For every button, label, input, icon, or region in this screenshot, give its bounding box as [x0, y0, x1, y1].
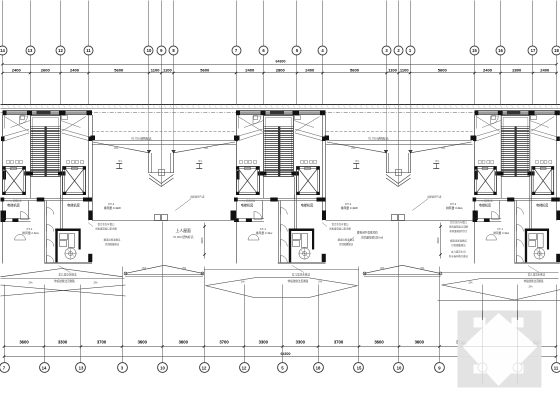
svg-text:3300: 3300	[58, 340, 68, 345]
svg-text:铝合金百叶窗口: 铝合金百叶窗口	[450, 220, 467, 224]
svg-text:防水卷材收头做法: 防水卷材收头做法	[449, 254, 469, 258]
svg-text:排风量 3.4kw: 排风量 3.4kw	[446, 206, 463, 210]
lower roof: peak under unit 1	[1, 269, 62, 277]
top axis circles	[0, 46, 7, 55]
svg-text:铝合金百叶窗口: 铝合金百叶窗口	[332, 222, 349, 226]
funnel 2 exhaust leader	[412, 199, 428, 211]
roof fascia line lower	[1, 108, 560, 110]
svg-text:伸缩缝做法见图集: 伸缩缝做法见图集	[54, 279, 75, 283]
raised walkway ridge 1	[125, 265, 164, 273]
svg-text:风机盘管接口见详图: 风机盘管接口见详图	[95, 227, 117, 231]
funnel 2 dashed axis line	[326, 131, 473, 133]
funnel 2 channel walls	[386, 152, 388, 173]
svg-text:详见图集做法: 详见图集做法	[105, 242, 120, 246]
svg-text:排风量 2.4kw: 排风量 2.4kw	[256, 231, 273, 235]
svg-text:烟道出屋面做法: 烟道出屋面做法	[450, 239, 467, 243]
svg-text:70.750 结构标高: 70.750 结构标高	[368, 136, 389, 140]
funnel 2 roof floor line	[326, 220, 473, 222]
unit 1 room bottom wall	[44, 262, 92, 264]
unit 1 half-disc door leaf	[15, 235, 26, 241]
unit 2 left wall	[236, 115, 238, 167]
svg-text:3600: 3600	[532, 342, 539, 346]
svg-text:2%: 2%	[318, 280, 323, 284]
unit 3 machine-room floor double line	[474, 198, 559, 200]
funnel 2 U bottom and V	[386, 172, 411, 174]
unit 2 stair center divider	[278, 127, 280, 177]
unit 1 equipment room walls	[55, 229, 57, 263]
svg-text:2800: 2800	[276, 68, 286, 73]
unit 3 corridor door	[517, 256, 524, 263]
svg-text:2400: 2400	[12, 68, 22, 73]
svg-text:烟道出屋面做法: 烟道出屋面做法	[338, 238, 355, 242]
bottom overall dimension line (64300)	[4, 356, 556, 358]
svg-text:2%: 2%	[528, 285, 533, 289]
funnel 1 vertical dimension	[204, 223, 206, 259]
svg-text:排风量 3.4kW: 排风量 3.4kW	[104, 206, 121, 210]
unit 2 equipment room walls	[289, 229, 291, 263]
svg-text:11: 11	[86, 48, 91, 53]
unit 3 stair center divider	[515, 127, 517, 177]
unit 3 room bottom wall	[514, 262, 559, 264]
lower roof: valley X under unit 1	[1, 285, 126, 296]
svg-text:2%: 2%	[114, 146, 119, 150]
svg-text:出屋面排气道: 出屋面排气道	[190, 195, 205, 199]
lower roof slope hexagon 2	[204, 269, 359, 271]
svg-text:17: 17	[531, 48, 536, 53]
svg-text:14: 14	[0, 48, 5, 53]
svg-text:电梯机房: 电梯机房	[536, 202, 548, 207]
unit 2 stair bottom wall	[258, 171, 299, 173]
funnel 1 dashed axis line	[92, 131, 236, 133]
svg-text:2800: 2800	[512, 68, 522, 73]
unit 3 right wall	[555, 115, 557, 221]
svg-text:2%: 2%	[351, 146, 356, 150]
svg-text:13: 13	[79, 365, 84, 370]
stair core unit 2 : top wall	[236, 110, 326, 112]
unit 1 stair well	[31, 116, 61, 177]
svg-text:电梯机房: 电梯机房	[67, 203, 80, 208]
top segment dimension line	[3, 72, 557, 74]
svg-text:3600: 3600	[415, 340, 425, 345]
svg-text:详见图集做法: 详见图集做法	[339, 242, 354, 246]
unit 3 left room divider wall	[498, 201, 500, 220]
unit 1 left wall	[2, 115, 4, 167]
svg-text:女儿墙泛水(1): 女儿墙泛水(1)	[451, 250, 466, 254]
funnel 2 vertical dimension	[440, 223, 442, 259]
svg-text:2%: 2%	[241, 280, 246, 284]
unit 3 spiral stair	[534, 248, 545, 259]
svg-text:女儿墙泛水做法: 女儿墙泛水做法	[528, 272, 546, 276]
unit 2 left room divider wall	[262, 201, 264, 220]
unit 1 equipment boxes	[60, 234, 68, 240]
unit 2 corridor walls	[278, 201, 280, 263]
unit 3 half-disc door leaf	[486, 235, 496, 241]
svg-text:3300: 3300	[460, 342, 467, 346]
svg-text:电梯机房: 电梯机房	[301, 203, 314, 208]
faint lines over watermark	[482, 312, 484, 385]
svg-text:2%: 2%	[28, 281, 33, 285]
svg-text:2%: 2%	[441, 146, 446, 150]
unit 1 corridor walls	[44, 201, 46, 263]
svg-text:3300: 3300	[296, 340, 306, 345]
svg-text:64300: 64300	[276, 60, 286, 64]
unit 2 stair break diagonals	[236, 129, 263, 137]
overall dimension line top (64300)	[3, 64, 557, 66]
unit 2 left wall lower	[236, 201, 238, 264]
svg-text:出屋面排气道: 出屋面排气道	[427, 195, 442, 199]
unit 2 corridor door	[280, 256, 287, 263]
svg-text:铝合金百叶窗口: 铝合金百叶窗口	[98, 222, 115, 226]
svg-text:2%: 2%	[142, 266, 147, 270]
svg-text:排风量 2.4kw: 排风量 2.4kw	[493, 231, 509, 235]
svg-text:15: 15	[357, 365, 362, 370]
unit 2 equipment boxes	[293, 234, 301, 240]
funnel 1 parapet double lines	[92, 140, 236, 142]
svg-text:1100: 1100	[388, 68, 397, 73]
unit 1 machine-room floor double line	[3, 198, 93, 200]
svg-text:3600: 3600	[436, 237, 440, 244]
unit 3 elevator shaft	[474, 167, 496, 195]
svg-text:1100: 1100	[400, 68, 409, 73]
unit 2 corridor door	[280, 240, 287, 247]
watermark white diamond	[463, 313, 538, 386]
svg-text:1100: 1100	[163, 68, 172, 73]
stair core unit 3 : top wall	[474, 110, 559, 112]
svg-text:64300: 64300	[281, 352, 291, 356]
svg-text:10: 10	[147, 48, 152, 53]
unit 2 stair door arc	[253, 116, 261, 124]
watermark white corner squares	[474, 318, 486, 328]
unit 1 stair break diagonals	[3, 129, 30, 137]
svg-text:3600: 3600	[19, 340, 29, 345]
fascia hatch ticks	[2, 105, 4, 109]
stair core unit 1 : top wall	[3, 110, 93, 112]
svg-text:3700: 3700	[334, 340, 344, 345]
svg-text:风机盘管接口见图: 风机盘管接口见图	[449, 225, 469, 229]
unit 1 right wall	[88, 115, 90, 221]
unit 1 elevator shaft	[3, 167, 26, 195]
svg-text:2%: 2%	[468, 281, 473, 285]
raised walkway ridge 2	[364, 265, 402, 273]
roof fascia line upper	[1, 104, 560, 106]
svg-text:2400: 2400	[245, 68, 255, 73]
main axis dash-dot centerline	[1, 112, 560, 114]
unit 1 corridor door	[47, 256, 54, 263]
svg-text:3600: 3600	[138, 340, 148, 345]
svg-text:18: 18	[554, 48, 559, 53]
svg-text:12: 12	[242, 365, 247, 370]
unit 2 elevator shaft	[237, 167, 260, 195]
svg-text:上人屋面: 上人屋面	[176, 228, 191, 233]
svg-text:2%: 2%	[420, 266, 425, 270]
svg-text:伸缩缝做法见图集: 伸缩缝做法见图集	[524, 279, 544, 283]
funnel 1 section markers	[116, 163, 122, 165]
top axis tick lines	[2, 1, 4, 46]
unit 1 stair bottom wall	[24, 171, 65, 173]
svg-text:11: 11	[554, 365, 559, 370]
unit 3 left wall lower	[473, 201, 475, 264]
unit 3 stair door arc	[491, 116, 499, 124]
funnel 1 channel walls	[148, 152, 150, 173]
funnel 1 U bottom and V	[149, 172, 174, 174]
svg-text:18: 18	[316, 365, 321, 370]
svg-text:3600: 3600	[200, 237, 204, 244]
svg-text:2400: 2400	[483, 68, 493, 73]
unit 1 elevator shaft	[63, 167, 86, 195]
svg-text:70.300 结构标高: 70.300 结构标高	[173, 235, 194, 239]
funnel 2 slope diagonals	[327, 142, 386, 153]
svg-text:1100: 1100	[151, 68, 160, 73]
unit 2 right wall	[322, 115, 324, 221]
funnel 1 slope diagonals	[93, 142, 149, 153]
bottom axis circles	[4, 357, 6, 363]
svg-text:3600: 3600	[179, 340, 189, 345]
svg-text:电梯机房: 电梯机房	[241, 203, 254, 208]
svg-text:3700: 3700	[97, 340, 107, 345]
funnel 2 center axis line	[398, 105, 400, 187]
unit 1 corridor door	[47, 208, 54, 215]
unit 2 machine-room floor double line	[236, 198, 326, 200]
unit 1 interior wall with door	[1, 218, 31, 220]
funnel 1 roof floor line	[92, 220, 236, 222]
svg-text:排风量按照5次计: 排风量按照5次计	[449, 229, 468, 233]
watermark gray square	[458, 311, 542, 388]
svg-text:12: 12	[58, 48, 63, 53]
unit 3 corridor door	[517, 208, 524, 215]
unit 3 corridor door	[517, 240, 524, 247]
funnel 2 parapet double lines	[326, 140, 473, 142]
svg-text:16: 16	[498, 48, 503, 53]
svg-text:排风量 3.4kW: 排风量 3.4kW	[341, 206, 358, 210]
svg-text:楼梯间中强排风机: 楼梯间中强排风机	[357, 231, 378, 235]
funnel 2 skylight pair	[392, 215, 398, 221]
unit 2 corridor door	[280, 208, 287, 215]
svg-text:2%: 2%	[93, 281, 98, 285]
svg-text:13: 13	[28, 48, 33, 53]
unit 1 corridor door	[47, 240, 54, 247]
svg-text:2400: 2400	[70, 68, 80, 73]
unit 1 stair center divider	[45, 127, 47, 177]
unit 3 elevator shaft	[532, 167, 554, 195]
svg-text:3700: 3700	[219, 340, 229, 345]
unit 2 room bottom wall	[278, 262, 326, 264]
svg-text:2600: 2600	[41, 68, 51, 73]
unit 2 corridor door	[280, 225, 287, 232]
unit 3 equipment boxes	[529, 234, 537, 240]
svg-text:2%: 2%	[182, 266, 187, 270]
svg-text:女儿墙泛水做法: 女儿墙泛水做法	[58, 273, 77, 277]
unit 1 spiral stair	[65, 248, 76, 259]
svg-text:排风量按照5次/h计: 排风量按照5次/h计	[361, 236, 383, 240]
unit 3 stair break diagonals	[474, 129, 499, 137]
unit 2 elevator shaft	[297, 167, 320, 195]
svg-text:2400: 2400	[305, 68, 315, 73]
svg-text:3300: 3300	[259, 340, 269, 345]
unit 1 stair door arc	[20, 116, 28, 124]
svg-text:14: 14	[42, 365, 47, 370]
svg-text:2%: 2%	[380, 266, 385, 270]
svg-text:女儿墙泛水做法: 女儿墙泛水做法	[292, 273, 311, 277]
svg-text:15: 15	[472, 48, 477, 53]
bottom segment dimension line	[4, 346, 556, 348]
svg-text:3600: 3600	[374, 340, 384, 345]
unit 2 stair well	[264, 116, 294, 177]
unit 3 equipment room walls	[525, 229, 527, 263]
svg-text:5600: 5600	[114, 68, 124, 73]
unit 2 interior wall with door	[234, 218, 264, 220]
unit 1 left room divider wall	[28, 201, 30, 220]
unit 3 interior wall with door	[473, 218, 502, 220]
svg-text:排风量 2.4kw: 排风量 2.4kw	[22, 231, 39, 235]
svg-text:5600: 5600	[200, 68, 210, 73]
unit 3 corridor walls	[514, 201, 516, 263]
svg-text:烟道出屋面做法: 烟道出屋面做法	[104, 238, 121, 242]
svg-text:FT-1: FT-1	[498, 227, 504, 231]
funnel 1 center axis line	[161, 105, 163, 187]
unit 3 stair well	[501, 116, 530, 177]
unit 1 left wall lower	[2, 201, 4, 264]
unit 3 stair bottom wall	[495, 171, 534, 173]
unit 2 spiral stair	[299, 248, 310, 259]
svg-text:10: 10	[160, 365, 165, 370]
svg-text:2400: 2400	[540, 68, 550, 73]
svg-text:2%: 2%	[204, 146, 209, 150]
unit 2 half-disc door leaf	[248, 235, 259, 241]
top axis stems below circles	[2, 54, 4, 104]
svg-text:伸缩缝做法见图集: 伸缩缝做法见图集	[288, 279, 309, 283]
svg-text:详见图集做法: 详见图集做法	[451, 243, 466, 247]
svg-text:电梯机房: 电梯机房	[479, 202, 491, 207]
svg-text:5600: 5600	[350, 68, 360, 73]
funnel 2 section markers	[353, 163, 359, 165]
unit 3 corridor door	[517, 225, 524, 232]
svg-text:电梯机房: 电梯机房	[7, 203, 20, 208]
lower roof slope segment 3	[441, 272, 559, 274]
svg-text:12: 12	[202, 365, 207, 370]
bottom axis vertical lines	[4, 285, 6, 357]
funnel 1 skylight pair	[155, 215, 161, 221]
svg-text:5600: 5600	[438, 68, 448, 73]
unit 1 corridor door	[47, 225, 54, 232]
svg-text:10: 10	[397, 365, 402, 370]
svg-text:风机盘管接口见详图: 风机盘管接口见详图	[329, 227, 351, 231]
unit 3 left wall	[473, 115, 475, 167]
funnel 1 exhaust leader	[175, 199, 191, 211]
